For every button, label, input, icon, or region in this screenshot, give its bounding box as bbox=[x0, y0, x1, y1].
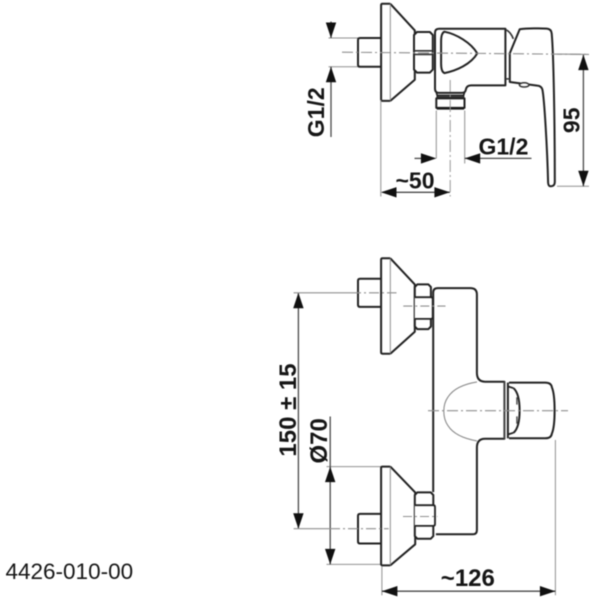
extension line top (G1/2 upper) bbox=[329, 37, 359, 39]
dimension 95 vertical line bbox=[582, 55, 584, 187]
dimension ~50 line bbox=[382, 191, 450, 193]
arrow up (150 top) bbox=[293, 293, 303, 309]
handle cone elliptic edge (front view) bbox=[514, 388, 520, 433]
arrow left (to outlet right edge) bbox=[465, 153, 481, 163]
outlet thread block G1/2 (top view) bbox=[436, 98, 464, 108]
top flange rim (front view) bbox=[381, 258, 390, 353]
extension line wall face bottom (~126 left) bbox=[381, 567, 383, 596]
arrow left (~50) bbox=[381, 187, 397, 197]
handle underside oval detail (top view) bbox=[519, 83, 529, 87]
svg-text:95: 95 bbox=[559, 107, 585, 133]
extension line knob face (~126 right) bbox=[554, 440, 556, 595]
bottom union nut (front view) bbox=[415, 492, 434, 538]
centerline top view (wall pipe / body axis) bbox=[342, 52, 589, 54]
top union nut (front view) bbox=[415, 284, 431, 329]
handle cone base rear edge (front view) bbox=[507, 383, 509, 439]
arrow up (Ø70 top) bbox=[325, 467, 335, 483]
svg-text:~50: ~50 bbox=[396, 167, 435, 193]
dimension 150±15 vertical line bbox=[297, 293, 299, 529]
top nipple (front view) bbox=[358, 279, 381, 307]
centerline bottom union nut (front view) bbox=[403, 516, 438, 518]
extension line handle bottom (95) bbox=[557, 185, 589, 187]
top flange cone (front view) bbox=[390, 258, 415, 353]
extension line flange bottom (Ø70) bbox=[327, 563, 382, 565]
svg-text:150 ± 15: 150 ± 15 bbox=[275, 363, 302, 456]
arrow up (95 top) bbox=[578, 55, 588, 71]
extension line flange top (Ø70) bbox=[327, 466, 382, 468]
bottom union nut middle band bbox=[415, 505, 435, 526]
extension line outlet left edge bbox=[435, 111, 437, 159]
top flange rim inner edge (front view) bbox=[389, 259, 391, 353]
mixer body (front view) bbox=[433, 288, 504, 534]
nut flat lines (top view) bbox=[414, 51, 433, 55]
hex nut (top view) bbox=[414, 32, 433, 73]
extension line wall face (top view) bbox=[380, 100, 382, 197]
dimension G1/2 outlet: left tail and arrows bbox=[415, 157, 424, 159]
arrow up (G1/2 left bottom) bbox=[326, 67, 336, 83]
centerline bottom wall pipe (front view) bbox=[294, 528, 330, 530]
svg-text:G1/2: G1/2 bbox=[479, 133, 529, 159]
outlet thread heavy bottom edge bbox=[437, 107, 464, 110]
lever handle (top view) bbox=[510, 28, 555, 186]
arrow right (to outlet left edge) bbox=[421, 153, 437, 163]
dimension Ø70 vertical line bbox=[329, 417, 331, 565]
dimension line G1/2 left vertical bbox=[330, 22, 332, 138]
arrow down (G1/2 left top) bbox=[326, 23, 336, 39]
extension line bottom (G1/2 lower) bbox=[329, 66, 359, 68]
handle knob cylinder (front view) bbox=[509, 383, 555, 439]
centerline handle axis (front view) bbox=[428, 410, 568, 412]
flange rim inner edge (top view) bbox=[389, 5, 391, 100]
extension line outlet right edge bbox=[464, 111, 466, 164]
arrow left (~126) bbox=[382, 586, 398, 596]
bottom nipple (front view) bbox=[358, 514, 381, 544]
bottom flange rim (front view) bbox=[381, 467, 390, 566]
cartridge dome profile (front view) bbox=[444, 382, 477, 441]
arrow down (150 bottom) bbox=[293, 513, 303, 529]
handle cone inner ticks (front view) bbox=[516, 397, 518, 423]
extension line 95 top (solid tail) bbox=[557, 53, 589, 55]
outlet collar ring (top view) bbox=[436, 93, 464, 96]
bottom flange cone (front view) bbox=[390, 467, 415, 566]
svg-text:G1/2: G1/2 bbox=[303, 87, 329, 137]
dimension ~126 line bbox=[382, 590, 556, 592]
arrow down (95 bottom) bbox=[578, 171, 588, 187]
arrow right (~50) bbox=[434, 187, 450, 197]
valve body (top view) bbox=[435, 29, 505, 93]
handle cone slants (front view) bbox=[508, 386, 514, 434]
centerline top wall pipe (front view) bbox=[294, 292, 351, 294]
svg-text:~126: ~126 bbox=[441, 565, 495, 592]
dome edge behind handle (top view) bbox=[506, 30, 514, 39]
bottom flange rim inner edge (front view) bbox=[389, 468, 391, 565]
outlet axis centerline (top view vertical) bbox=[449, 80, 451, 197]
nipple (top view wall pipe) bbox=[358, 38, 381, 67]
flange rim (top view) bbox=[381, 4, 390, 101]
cartridge dome cap (top view teardrop) bbox=[441, 32, 477, 73]
outlet groove line (top view) bbox=[437, 96, 463, 98]
flange cone (top view) bbox=[390, 4, 415, 101]
top union nut middle band bbox=[415, 297, 433, 319]
arrow down (Ø70 bottom) bbox=[325, 549, 335, 565]
handle base step (top view) bbox=[505, 78, 509, 80]
svg-text:Ø70: Ø70 bbox=[306, 418, 333, 463]
handle boss end face (front view) bbox=[503, 382, 505, 439]
svg-text:4426-010-00: 4426-010-00 bbox=[6, 559, 134, 584]
arrow right (~126) bbox=[540, 586, 556, 596]
centerline top union nut (front view) bbox=[403, 305, 445, 307]
